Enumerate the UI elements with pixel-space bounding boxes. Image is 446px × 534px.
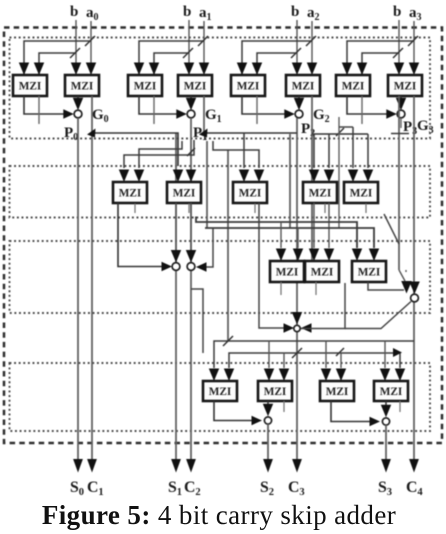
wire b3 from label to MZI pair (398, 20, 400, 64)
wire jog a3 to left MZI input (347, 41, 414, 74)
wire P2 skip to stage 2 (312, 133, 368, 135)
input arrows into row2 U12 (309, 170, 319, 183)
stub wire below U1 (38, 96, 40, 124)
svg-text:b: b (393, 4, 401, 20)
svg-text:C3: C3 (288, 479, 305, 498)
arrow (leftward) into right row3 junction (196, 262, 207, 272)
svg-text:MZI: MZI (264, 386, 287, 398)
input arrows into row3 U16 (352, 249, 362, 262)
wire a2 from label to MZI pair (311, 21, 313, 64)
svg-text:MZI: MZI (394, 80, 417, 92)
wire b3 continuation vertical to carry cluster (398, 96, 400, 270)
arrow into junction node (bit 0) (63, 109, 74, 119)
stub below U18 (283, 401, 285, 412)
input arrows into right MZI of bit 3 (394, 63, 404, 76)
svg-text:P0: P0 (64, 125, 78, 143)
input arrows into row2 U9 (119, 170, 129, 183)
MZI U9 (row 2) (113, 182, 147, 203)
MZI U10 (row 2) (167, 182, 201, 203)
input arrows into row2 U10 (173, 170, 183, 183)
junction node G0 (74, 110, 82, 118)
arrow from U2 down into junction (bit 0) (77, 96, 79, 101)
skip bowtie junction: left arrow (301, 323, 312, 333)
drop wire to row3 U14 second input (297, 228, 299, 248)
junction tick on row4 feed (223, 336, 233, 346)
skip wire vertical through row2 band (right) (289, 134, 291, 228)
arrow into junction node (bit 1) (176, 109, 187, 119)
wire row2 U9 output to S1 junction (118, 203, 166, 267)
wire drop to row2 U13 left input (352, 127, 354, 168)
arrow from U20 into S3 junction (385, 401, 387, 407)
MZI U15 (row 3) (305, 261, 339, 282)
MZI U5 (bit 2 left) (231, 75, 265, 96)
output arrow C4 (409, 459, 419, 473)
junction tick on row4 lower feed (292, 348, 302, 358)
junction node C4 cluster (411, 294, 419, 302)
stub below U12 (324, 204, 326, 214)
wire jog b0 to left MZI input (39, 53, 76, 74)
svg-text:G3: G3 (417, 118, 434, 136)
input arrows into row3 U15 (309, 249, 319, 262)
wire a1 continuation below U4 (203, 96, 205, 133)
input arrows into left MZI of bit 3 (342, 63, 352, 76)
wire drop from P1 skip wire to row2 U11 (243, 133, 245, 168)
drop wires to row4 MZI inputs (268, 341, 270, 368)
input arrows into left MZI of bit 1 (134, 63, 144, 76)
wire b0 from label to MZI pair (75, 20, 77, 64)
output arrow C2 (186, 459, 196, 473)
input arrows into right MZI of bit 2 (292, 63, 302, 76)
arrow into junction node (bit 3) (386, 109, 397, 119)
dotted box: row 2 stage (10, 166, 431, 218)
input arrows into row3 U14 (276, 249, 286, 262)
stub below U9 (134, 204, 136, 214)
MZI U2 (bit 0 right) (65, 75, 99, 96)
wire jog b3 to left MZI input (362, 53, 399, 74)
figure caption (0, 500, 438, 531)
junction node S2 (264, 417, 271, 424)
wire C4 vertical (a3 line) (413, 96, 415, 461)
stub wire below U5 (256, 96, 258, 124)
MZI U8 (bit 3 right) (388, 75, 422, 96)
svg-text:b: b (291, 4, 299, 20)
wire U16 output to carry cluster (368, 282, 404, 290)
stub below U13 (365, 204, 367, 214)
junction node (row3 left) (172, 263, 180, 271)
svg-text:MZI: MZI (276, 266, 299, 278)
output arrow S2 (263, 459, 273, 473)
svg-text:MZI: MZI (209, 386, 232, 398)
wire P3/G3 jog (338, 117, 340, 228)
wire drops from P2 skip wire to row2 U12 inputs (313, 134, 315, 168)
dotted box: row 3 stage (10, 241, 431, 313)
input arrows into row4 U18 (264, 369, 274, 382)
wire jog b2 to left MZI input (257, 53, 297, 74)
diagonal wire to carry cluster (384, 214, 399, 244)
MZI U18 (row 4) (258, 381, 292, 401)
short wire under P3 G3 labels (391, 133, 409, 135)
wires row2 U12 outputs down to row3 inputs (313, 203, 315, 248)
wire a2 continuation vertical (311, 96, 313, 261)
wire C1 vertical (carry 1) (91, 96, 93, 461)
MZI U11 (row 2) (233, 182, 267, 203)
svg-text:MZI: MZI (19, 80, 42, 92)
skip bowtie junction: right arrow (284, 323, 295, 333)
junction node G2 (295, 110, 303, 118)
MZI U17 (row 4) (203, 381, 237, 401)
svg-text:C2: C2 (184, 479, 201, 498)
output arrow C1 (87, 459, 97, 473)
wire feed into right row3 junction from distribution (206, 228, 213, 267)
wire S0 vertical (sum bit 0) (77, 118, 79, 461)
junction tick on b0 wire (70, 48, 80, 58)
svg-text:S2: S2 (260, 479, 274, 498)
MZI U14 (row 3) (270, 261, 304, 282)
svg-text:MZI: MZI (342, 80, 365, 92)
svg-text:MZI: MZI (358, 266, 381, 278)
stub below U14 (280, 282, 282, 295)
junction tick on row4 mid feed (336, 348, 344, 356)
input arrows into left MZI of bit 0 (19, 63, 29, 76)
wire P0 skip to stage 2 (92, 133, 178, 166)
MZI U16 (row 3) (352, 261, 386, 282)
arrow from U4 down into junction (bit 1) (190, 96, 192, 101)
MZI U3 (bit 1 left) (128, 75, 162, 96)
skip bowtie junction: down arrow (296, 312, 298, 316)
wire C3 / skip vertical (296, 118, 298, 461)
MZI U4 (bit 1 right) (178, 75, 212, 96)
input arrows into row2 U11 (239, 170, 249, 183)
MZI U13 (row 2) (344, 182, 378, 203)
wire from bowtie right to cluster diagonal (301, 283, 345, 329)
svg-text:MZI: MZI (119, 187, 142, 199)
stub below U15 (315, 282, 317, 295)
svg-text:a3: a3 (409, 5, 422, 23)
svg-text:MZI: MZI (380, 386, 403, 398)
drop wire to row3 U14 input (280, 222, 282, 248)
input arrows into right MZI of bit 0 (71, 63, 81, 76)
short wire below G3 junction (400, 118, 402, 128)
svg-text:MZI: MZI (326, 386, 349, 398)
wire S1 vertical (175, 133, 177, 461)
wire C2 vertical (190, 118, 192, 461)
svg-text:MZI: MZI (71, 80, 94, 92)
svg-text:C4: C4 (406, 479, 423, 498)
junction tick on a1 wire (198, 36, 208, 46)
arrows into row3 junction nodes (171, 250, 181, 263)
wire row2 U10 outputs down (175, 203, 177, 252)
svg-text:G1: G1 (205, 107, 222, 125)
svg-text:a2: a2 (307, 5, 320, 23)
input arrows into left MZI of bit 2 (237, 63, 247, 76)
junction tick on a0 wire (85, 36, 95, 46)
svg-text:G0: G0 (92, 107, 109, 125)
skip wire vertical through row2 band (left) (206, 141, 208, 228)
input arrows into row4 U19 (321, 369, 331, 382)
svg-text:MZI: MZI (184, 80, 207, 92)
horizontal distribution wire (upper) between row2 and row3 (196, 217, 357, 249)
arrow into S3 junction (370, 417, 381, 426)
horizontal distribution wire (lower) between row2 and row3 (205, 228, 374, 248)
svg-text:b: b (70, 4, 78, 20)
MZI U20 (row 4) (374, 381, 408, 401)
svg-text:G2: G2 (313, 107, 330, 125)
MZI U7 (bit 3 left) (336, 75, 370, 96)
wire b2 from label to MZI pair (296, 20, 298, 64)
junction tick on b1 wire (183, 48, 193, 58)
svg-text:S0: S0 (70, 479, 84, 498)
carry-skip vertical wire from P1 region (227, 150, 229, 341)
svg-text:P3: P3 (403, 119, 417, 137)
wire U19 output to S3 junction (331, 401, 374, 422)
svg-text:MZI: MZI (292, 80, 315, 92)
wire jog a1 to left MZI input (139, 41, 204, 74)
arrow into S1 junction (162, 262, 173, 271)
skip bowtie node (294, 325, 300, 331)
junction tick on b3 wire (393, 48, 403, 58)
wire a1 from label to MZI pair (203, 21, 205, 64)
MZI U19 (row 4) (320, 381, 354, 401)
svg-text:MZI: MZI (239, 187, 262, 199)
junction tick on a2 wire (306, 36, 316, 46)
MZI U12 (row 2) (303, 182, 337, 203)
stub below U20 (399, 401, 401, 412)
svg-text:MZI: MZI (350, 187, 373, 199)
diagonal feed into cluster from b3 wire (399, 270, 405, 281)
svg-text:b: b (183, 4, 191, 20)
svg-text:a0: a0 (86, 5, 99, 23)
svg-text:a1: a1 (199, 5, 212, 23)
dotted box: row 4 stage (10, 363, 431, 431)
junction tick left row2 feed (187, 148, 195, 156)
arrow into S2 junction (252, 416, 263, 425)
svg-text:S3: S3 (378, 479, 392, 498)
output arrow S0 (73, 459, 83, 473)
wire P1 skip to stage 2 (204, 132, 297, 134)
arrow into carry-4 cluster (right) (409, 282, 420, 295)
svg-text:MZI: MZI (173, 187, 196, 199)
junction node G3 (397, 110, 405, 118)
svg-text:MZI: MZI (134, 80, 157, 92)
junction tick on a3 wire (408, 36, 418, 46)
horizontal distribution wire upper (feeds row4) (214, 341, 414, 368)
wire jog b1 to left MZI input (154, 53, 189, 74)
junction tick on b2 wire (291, 48, 301, 58)
arrow from U8 down into junction (bit 3) (400, 96, 402, 101)
MZI U1 (bit 0 left) (13, 75, 47, 96)
stub below U11 (254, 204, 256, 214)
stub wire below U7 (361, 96, 363, 124)
svg-text:C1: C1 (87, 479, 104, 498)
wire drop to row2 U13 right input (367, 134, 369, 168)
arrow into carry-4 cluster (left) (405, 270, 407, 272)
wire jog a2 to left MZI input (242, 41, 312, 74)
wire bowtie to cluster (long diagonal) (345, 302, 411, 329)
junction node G1 (187, 110, 195, 118)
output arrow S1 (171, 459, 181, 473)
wire b1 from label to MZI pair (188, 20, 190, 64)
output arrow S3 (381, 459, 391, 473)
wire jog a0 to left MZI input (24, 41, 91, 74)
svg-text:S1: S1 (168, 479, 182, 498)
output arrow C3 (292, 459, 302, 473)
junction tick on P2 skip wire (336, 128, 344, 136)
wire from U1 output to junction node (24, 96, 66, 114)
arrow tail on P0 wire (87, 129, 96, 138)
wire jog from C2 line toward row4 feed (191, 289, 203, 353)
input arrows into row2 U13 (348, 170, 358, 183)
wire from U7 output to junction node (347, 96, 389, 114)
wire S2 junction down (267, 424, 269, 461)
svg-text:MZI: MZI (309, 187, 332, 199)
wire U17 output to S2 junction (214, 401, 256, 421)
junction node S3 (382, 418, 389, 425)
arrow tail on P1 wire (199, 129, 208, 138)
svg-text:MZI: MZI (311, 266, 334, 278)
svg-text:P2: P2 (301, 121, 315, 139)
wire row2 U11 output down to skip bowtie (259, 203, 285, 328)
wire feed to row2 U9 left input (124, 140, 194, 168)
svg-text:MZI: MZI (237, 80, 260, 92)
stub below U10 (188, 204, 190, 214)
MZI U6 (bit 2 right) (286, 75, 320, 96)
wire from U3 output to junction node (139, 96, 179, 114)
wire S3 junction down (385, 425, 387, 461)
stub wire below U3 (153, 96, 155, 124)
junction node (row3 right) (187, 263, 195, 271)
wire a3 from label to MZI pair (413, 21, 415, 64)
arrow into junction node (bit 2) (284, 109, 295, 119)
horizontal distribution wire lower (feeds row4) (229, 353, 400, 368)
wire feed to row2 U11 right input (213, 141, 259, 168)
input arrows into right MZI of bit 1 (184, 63, 194, 76)
wire feed to row2 U9 right input (139, 141, 182, 168)
input arrows into row4 U17 (209, 369, 219, 382)
input arrows into row4 U20 (380, 369, 390, 382)
arrow from U18 into S2 junction (267, 401, 269, 406)
drop wires to row4 MZI second inputs (283, 353, 285, 368)
wire from U5 output to junction node (242, 96, 287, 114)
wire a0 from label to MZI pair (90, 21, 92, 64)
outer dashed border of adder (4, 28, 442, 444)
dotted box: row 1 (sum/propagate/generate stage) (10, 38, 431, 139)
arrow on row4 feed wire (393, 348, 402, 357)
arrow from U6 down into junction (bit 2) (298, 96, 300, 101)
